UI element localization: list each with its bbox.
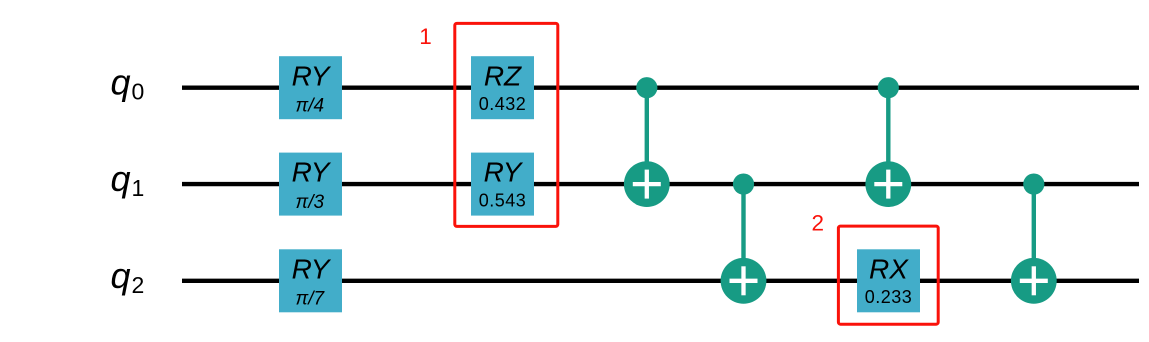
svg-text:RY: RY	[292, 157, 332, 188]
svg-text:2: 2	[812, 210, 825, 235]
svg-text:1: 1	[419, 24, 432, 49]
svg-text:RY: RY	[484, 157, 524, 188]
svg-text:0.432: 0.432	[479, 94, 527, 114]
svg-text:0.233: 0.233	[865, 287, 913, 307]
svg-text:RY: RY	[292, 253, 332, 284]
svg-text:π/3: π/3	[296, 192, 325, 213]
svg-text:RX: RX	[869, 253, 909, 284]
svg-text:RZ: RZ	[484, 60, 522, 91]
svg-text:0.543: 0.543	[479, 191, 527, 211]
svg-text:RY: RY	[292, 60, 332, 91]
svg-text:π/7: π/7	[296, 289, 326, 310]
svg-text:π/4: π/4	[296, 96, 325, 117]
